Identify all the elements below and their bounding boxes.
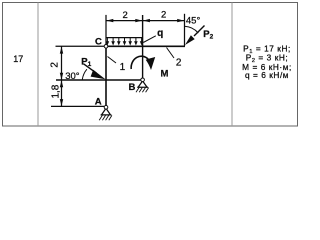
45 degree arc — [185, 26, 199, 33]
svg-text:A: A — [95, 97, 102, 108]
table divider left — [37, 3, 39, 127]
wire: vertical member at B up to dim line — [142, 15, 144, 80]
svg-text:45°: 45° — [186, 15, 201, 26]
svg-text:2: 2 — [176, 58, 182, 69]
force P1 arrow — [84, 64, 97, 73]
svg-text:M: M — [161, 68, 169, 79]
q label leader — [143, 36, 156, 43]
support B hatching — [136, 88, 149, 93]
wire: column A-C — [105, 46, 107, 107]
wire: extension line at A level — [51, 105, 104, 107]
30 degree arc — [82, 69, 87, 79]
dimension arrows top — [106, 19, 113, 22]
force P2 arrow — [194, 26, 205, 37]
svg-text:1: 1 — [120, 62, 126, 73]
svg-text:2: 2 — [123, 10, 128, 21]
wire: top beam C to right end — [105, 45, 186, 47]
support A triangle — [101, 109, 112, 115]
svg-text:C: C — [95, 36, 102, 47]
hinge C — [104, 45, 108, 49]
support A hatching — [99, 115, 112, 120]
left dim arrows — [60, 47, 63, 54]
svg-text:2: 2 — [49, 62, 60, 68]
given data text — [242, 44, 292, 80]
svg-text:17: 17 — [13, 54, 23, 64]
moment M arrowhead — [146, 57, 156, 70]
dimension top line — [106, 20, 185, 22]
distributed load q top line — [106, 37, 143, 39]
svg-text:2: 2 — [161, 10, 166, 21]
wire: mid horizontal line through P1 point to B — [56, 79, 143, 81]
tick at mid split — [57, 79, 65, 81]
distributed load arrows — [107, 38, 141, 43]
svg-text:q = 6 кН/м: q = 6 кН/м — [245, 70, 289, 80]
pin support A circle — [104, 105, 108, 109]
dimension left vertical line — [61, 46, 63, 106]
support B triangle — [137, 82, 148, 88]
leader for member 1 — [108, 57, 117, 64]
pin support B circle — [141, 78, 145, 82]
moment M arc — [131, 56, 148, 69]
wire: extension line at right end — [184, 14, 186, 46]
table divider right — [231, 3, 233, 127]
svg-text:30°: 30° — [65, 71, 80, 82]
svg-text:B: B — [128, 82, 135, 93]
svg-text:1,8: 1,8 — [50, 84, 61, 98]
svg-text:q: q — [157, 28, 163, 39]
wire: extension line above C — [105, 15, 107, 45]
wire: top extension line left of C — [56, 45, 105, 47]
leader for member 2 — [167, 48, 175, 59]
table outer border — [3, 3, 298, 127]
